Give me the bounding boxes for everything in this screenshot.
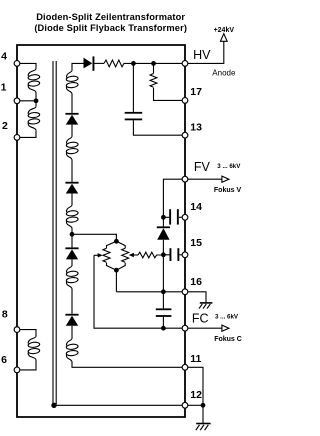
wire node to pin HV [154, 62, 183, 64]
wire tap to potentiometer top [72, 234, 116, 241]
pin 1 [14, 98, 20, 104]
secondary top corner wire [72, 63, 84, 70]
wire pin16 to ground [188, 292, 206, 303]
pin 15 [182, 252, 188, 258]
svg-text:12: 12 [190, 389, 202, 401]
wire D2 to L3 [71, 125, 73, 136]
pin 17 [182, 98, 188, 104]
package outline [17, 45, 185, 417]
wire pot bottom branches [107, 263, 126, 271]
pin 2 [14, 135, 20, 141]
svg-text:8: 8 [2, 309, 8, 321]
svg-text:Dioden-Split Zeilentransformat: Dioden-Split Zeilentransformator [36, 12, 185, 22]
wire pot top branches [107, 241, 126, 248]
wire tap to D4 [71, 234, 73, 247]
wiper arrow RV2 [129, 253, 138, 257]
capacitor C3 (pin15) [163, 248, 182, 261]
FV arrow wire [188, 178, 222, 180]
svg-text:2: 2 [2, 120, 8, 132]
capacitor C1 [125, 112, 143, 120]
+24kV arrow [220, 34, 227, 42]
svg-text:17: 17 [190, 86, 202, 98]
node focus tap [70, 232, 75, 237]
wire wiper RV1 to FC row [94, 255, 182, 328]
wire L5 to D5 [71, 289, 73, 314]
node ground junction [201, 403, 206, 408]
svg-text:11: 11 [190, 353, 201, 365]
diode D6 [157, 226, 170, 239]
wire pin1 [17, 100, 36, 102]
potentiometer RV1 (focus V) [103, 248, 110, 262]
secondary winding L5 [66, 265, 78, 289]
secondary winding L3 [66, 136, 78, 160]
wire node to coil B [35, 101, 37, 107]
core [53, 61, 56, 405]
wiper arrow RV1 [94, 253, 103, 257]
diode D1 (HV rectifier, horizontal) [84, 56, 105, 70]
ground G1 [199, 303, 212, 309]
primary winding A (pins 4-1) [28, 69, 40, 93]
pin HV [182, 61, 188, 67]
svg-text:4: 4 [1, 51, 7, 63]
wire D5 to L6 [71, 326, 73, 338]
wire HV to +24kV arrow [188, 42, 224, 64]
pin FC [182, 325, 188, 331]
node chain 16 [161, 289, 166, 294]
capacitor C4 (16 to FC) [156, 292, 172, 328]
diode D2 [65, 113, 78, 125]
pin 8 [14, 327, 20, 333]
resistor R1 (HV series) [104, 60, 133, 67]
secondary winding L2 [66, 70, 78, 94]
FC arrow wire [188, 327, 222, 329]
node core bottom [51, 403, 56, 408]
pin 6 [14, 367, 20, 373]
wire node to D6 [162, 217, 164, 226]
potentiometer RV2 (focus C) [122, 248, 129, 262]
diode D3 [65, 182, 78, 194]
wire junction to ground [202, 405, 204, 423]
pin FV [182, 176, 188, 182]
svg-text:Anode: Anode [212, 69, 236, 78]
wire pot bottom to row16 [115, 270, 117, 292]
pin 11 [182, 364, 188, 370]
wire L3 to D3 [71, 160, 73, 182]
svg-text:(Diode Split Flyback Transform: (Diode Split Flyback Transformer) [34, 23, 187, 33]
svg-text:+24kV: +24kV [214, 27, 235, 34]
pin 12 [182, 402, 188, 408]
wire chain 15 to 16 row [162, 255, 164, 292]
svg-text:3 ... 6kV: 3 ... 6kV [215, 314, 239, 321]
svg-text:6: 6 [1, 354, 7, 366]
wire D6 to node [162, 240, 164, 255]
resistor R3 (wiper to focus rail) [138, 252, 163, 258]
FV arrowhead [222, 176, 229, 182]
svg-text:FV: FV [194, 160, 211, 174]
wire C1 to pin 13 [133, 120, 182, 135]
pin 16 [182, 289, 188, 295]
wire coil B to pin2 [17, 130, 36, 137]
node pot top [114, 239, 119, 244]
wire R2 to pin 17 [154, 88, 183, 101]
wire pin FV to chain [163, 179, 182, 217]
pin 14 [182, 214, 188, 220]
node chain 15 [161, 252, 166, 257]
ground G2 [196, 424, 211, 431]
FC arrowhead [222, 325, 229, 331]
primary winding B (pins 1-2) [28, 106, 40, 130]
junction primary node [34, 98, 39, 103]
primary winding C (pins 8-6) [28, 336, 40, 360]
diode D4 [65, 247, 78, 259]
wire coil C to pin6 [17, 360, 36, 370]
wire pin11 to ground junction [188, 367, 203, 405]
capacitor C1 upper lead [132, 63, 134, 112]
wire pin12 to ground junction [188, 404, 203, 406]
node HV-C1 [131, 61, 136, 66]
diode D5 [65, 314, 78, 326]
node HV-R2 [151, 61, 156, 66]
pin 4 [14, 61, 20, 67]
svg-text:3 ... 6kV: 3 ... 6kV [217, 163, 241, 170]
wire core to pin 12 [54, 404, 182, 406]
svg-text:16: 16 [190, 276, 202, 288]
wire L6 to pin 11 [72, 362, 182, 367]
wire pin4 to coil [17, 63, 36, 68]
resistor R2 lead [153, 63, 155, 73]
wire pin8 to coil [17, 330, 36, 336]
wire D4 to L5 [71, 259, 73, 265]
node pot bottom [114, 268, 119, 273]
wire row16 [116, 291, 182, 293]
wire L2 to D2 [71, 94, 73, 113]
capacitor C2 (pin14) [163, 209, 182, 224]
wire node to node [133, 62, 153, 64]
secondary winding L6 [66, 338, 78, 362]
svg-text:14: 14 [190, 201, 202, 213]
node chain FC [161, 326, 166, 331]
node chain 14 [161, 215, 166, 220]
svg-text:13: 13 [190, 122, 202, 134]
wire coil A to node [35, 93, 37, 101]
svg-text:Fokus C: Fokus C [214, 336, 242, 343]
resistor R2 (bleeder to pin 17) [150, 74, 157, 88]
pin 13 [182, 132, 188, 138]
secondary winding L4 [66, 205, 78, 229]
wire L4 to tap node [71, 229, 73, 235]
wire D3 to L4 [71, 194, 73, 205]
svg-text:15: 15 [190, 237, 202, 249]
svg-text:FC: FC [192, 311, 209, 325]
svg-text:Fokus V: Fokus V [214, 187, 242, 194]
svg-text:1: 1 [1, 82, 7, 94]
svg-text:HV: HV [193, 48, 211, 62]
